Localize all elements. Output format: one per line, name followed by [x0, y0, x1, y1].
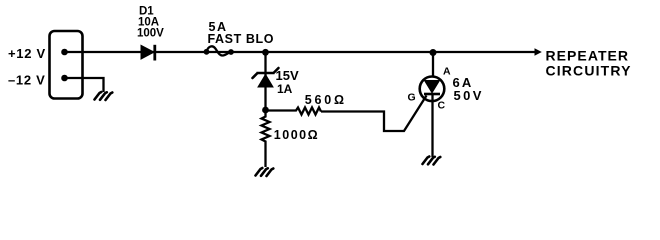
svg-text:1000Ω: 1000Ω: [274, 128, 319, 142]
label 15V / 1A: [276, 68, 299, 96]
ground (connector -12V return): [95, 92, 113, 100]
wire: +12V rail from connector to arrow: [65, 51, 536, 53]
resistor 1000Ω: [262, 113, 270, 144]
svg-text:G: G: [408, 92, 416, 104]
wire: SCR anode: [432, 52, 434, 77]
svg-text:+12 V: +12 V: [8, 46, 46, 61]
ground (SCR cathode): [423, 157, 441, 165]
label REPEATER CIRCUITRY: [546, 47, 632, 78]
ground (below 1000Ω): [256, 168, 274, 176]
terminal pin dot (+12V): [61, 49, 68, 56]
svg-text:A: A: [443, 66, 451, 78]
wire: -12V lead to ground: [65, 78, 104, 92]
svg-text:1A: 1A: [277, 82, 293, 96]
label D1 / 10A / 100V: [137, 6, 164, 40]
connector J1 (power input box): [50, 31, 83, 99]
node: gate-divider junction: [262, 107, 269, 114]
svg-text:C: C: [438, 100, 446, 112]
svg-text:50V: 50V: [454, 88, 484, 103]
terminal pin dot (-12V): [61, 75, 68, 82]
zener diode 15V 1A: [253, 68, 279, 87]
diode D1: [141, 45, 155, 61]
svg-text:CIRCUITRY: CIRCUITRY: [546, 63, 632, 79]
svg-text:–12 V: –12 V: [8, 72, 45, 87]
wire: zener branch down to divider junction: [264, 52, 266, 110]
resistor 560Ω: [266, 108, 322, 115]
SCR (6A 50V): [420, 77, 445, 158]
label 5A / FAST BLO: [208, 20, 275, 46]
node: SCR anode junction: [430, 49, 437, 56]
svg-text:15V: 15V: [276, 68, 299, 83]
svg-text:FAST BLO: FAST BLO: [208, 32, 275, 46]
svg-text:560Ω: 560Ω: [305, 93, 347, 107]
wire: 1000Ω to ground: [264, 144, 266, 167]
label 6A / 50V: [453, 75, 484, 103]
fuse F1 (5A FAST BLO): [204, 46, 234, 55]
arrow to repeater circuitry: [535, 48, 542, 56]
svg-text:REPEATER: REPEATER: [546, 47, 630, 63]
wire: SCR gate lead: [321, 96, 427, 132]
svg-text:100V: 100V: [137, 28, 164, 40]
node: zener branch junction: [262, 49, 269, 56]
